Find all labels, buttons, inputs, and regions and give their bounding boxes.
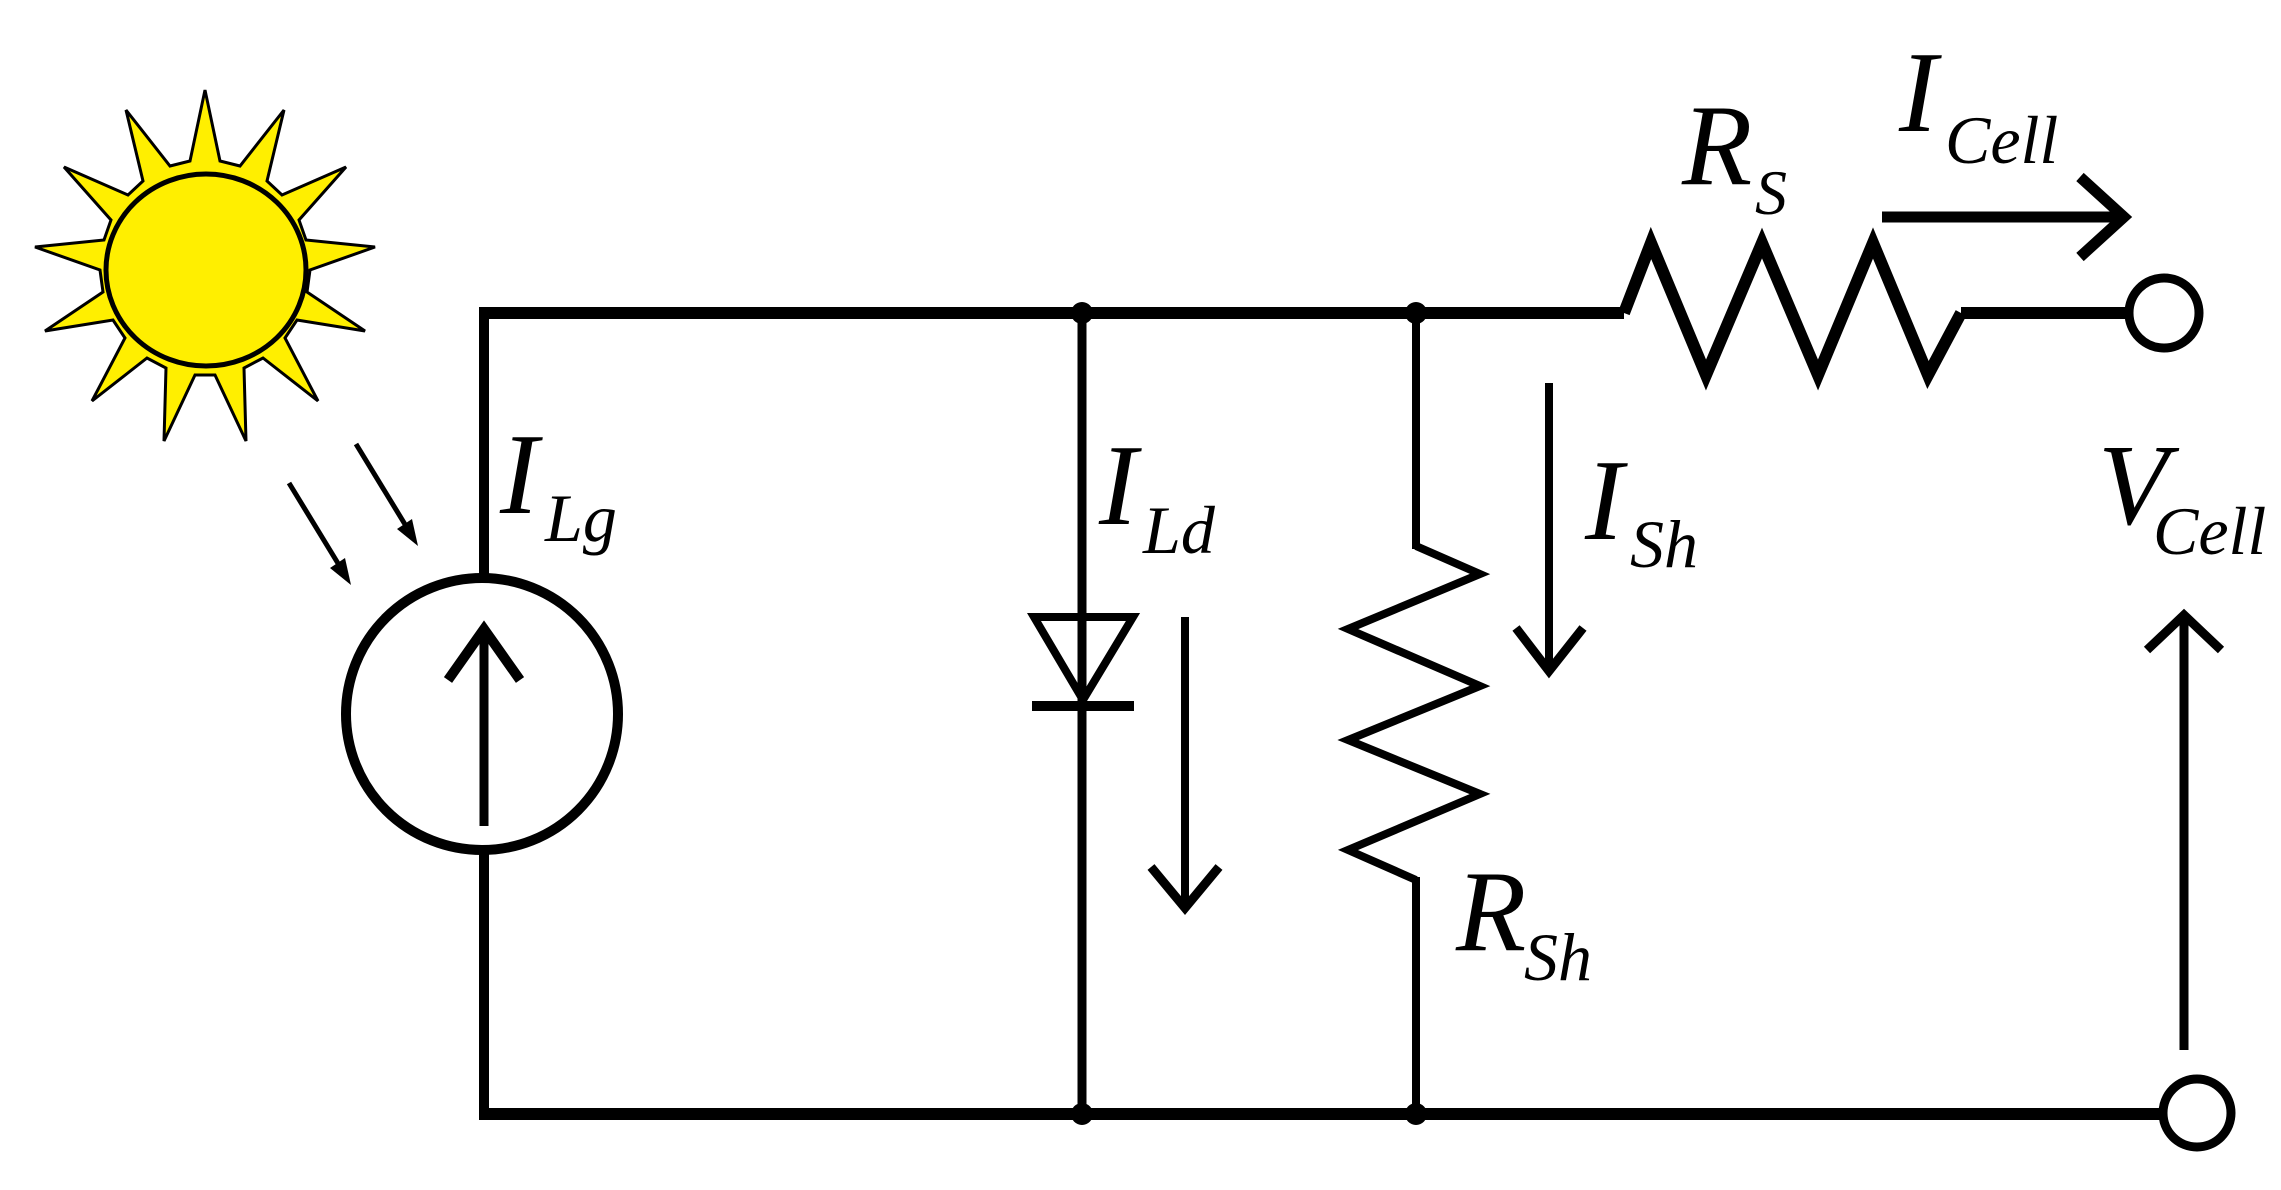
sun ray arrow 1: [289, 483, 351, 585]
arrow I_Cell: [1882, 177, 2124, 257]
svg-text:I: I: [499, 411, 543, 538]
wire top right of resistor: [1961, 307, 2130, 319]
junction node bottom shunt: [1405, 1103, 1427, 1125]
arrow V_Cell: [2147, 615, 2221, 1050]
arrow I_Ld: [1151, 617, 1219, 908]
svg-text:S: S: [1755, 157, 1787, 228]
svg-text:Cell: Cell: [2153, 493, 2266, 569]
svg-text:Sh: Sh: [1524, 919, 1592, 995]
wire diode branch: [1078, 313, 1087, 1114]
resistor R_Sh: [1348, 546, 1480, 880]
svg-text:I: I: [1898, 29, 1942, 156]
svg-text:I: I: [1584, 437, 1628, 564]
svg-text:R: R: [1681, 82, 1752, 209]
svg-text:Ld: Ld: [1142, 492, 1216, 568]
wire bottom: [479, 1108, 2163, 1120]
svg-text:Lg: Lg: [544, 480, 617, 556]
svg-text:I: I: [1098, 422, 1142, 549]
resistor R_S: [1624, 243, 1961, 375]
svg-text:Cell: Cell: [1945, 102, 2058, 178]
junction node bottom diode: [1071, 1103, 1093, 1125]
sun ray arrow 2: [356, 444, 418, 546]
diode D1: [1032, 617, 1134, 706]
wire left top: [479, 307, 489, 580]
wire left bottom: [479, 848, 489, 1120]
svg-text:R: R: [1455, 848, 1526, 975]
wire shunt branch top: [1412, 313, 1420, 549]
sun: [35, 90, 375, 441]
wire shunt branch bottom: [1412, 877, 1420, 1114]
junction node top shunt: [1405, 302, 1427, 324]
terminal bottom: [2163, 1079, 2231, 1147]
svg-text:Sh: Sh: [1630, 506, 1698, 582]
arrow I_Sh: [1516, 383, 1583, 671]
current source U1: [346, 578, 618, 850]
terminal top: [2129, 278, 2199, 348]
junction node top diode: [1071, 302, 1093, 324]
wire top: [484, 307, 1624, 319]
